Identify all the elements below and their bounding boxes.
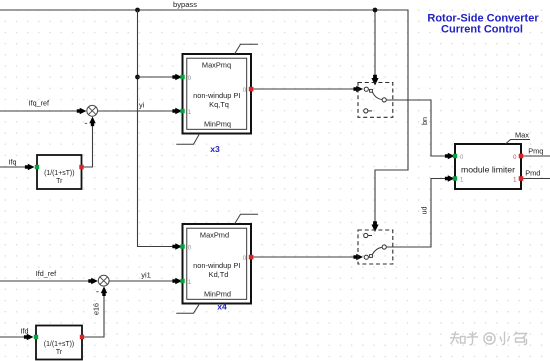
port x3 input0 green (180, 75, 184, 79)
arrow into ML input0 (445, 153, 455, 159)
S2 input contact circle (364, 255, 368, 259)
S2 aux contact circle (364, 233, 368, 237)
wire S2 output to module limiter input1 (ud) (387, 179, 448, 248)
svg-text:yi: yi (139, 101, 145, 110)
char hu (467, 332, 479, 345)
S1 moving contact arm (372, 92, 381, 99)
node junction x=137.5 y=77 (135, 75, 140, 80)
lag block T1 (35, 155, 84, 189)
port x4 output red (249, 255, 254, 260)
port T1 output red (79, 165, 83, 169)
switch S1 dashed box (358, 83, 393, 118)
summer SJ1 (87, 105, 98, 116)
svg-text:Max: Max (515, 131, 529, 140)
svg-text:-: - (84, 118, 87, 129)
S2 notch (370, 255, 373, 258)
x3 callout bottom-left (176, 134, 199, 145)
svg-text:-: - (96, 287, 99, 298)
watermark zhihu @xiaobao (450, 332, 527, 345)
arrow up into SJ2 (101, 286, 107, 296)
wire T1 output up to SJ1 (84, 121, 93, 167)
svg-text:x3: x3 (210, 144, 220, 154)
svg-text:Tr: Tr (56, 178, 63, 185)
port ML input0 green (453, 154, 457, 158)
PI block x4 (180, 224, 253, 304)
svg-text:bn: bn (420, 117, 429, 125)
port ML input1 green (453, 176, 457, 180)
arrow into summer SJ2 (88, 278, 98, 284)
arrow into x4 input0 (172, 243, 182, 249)
wire Ifq input (0, 166, 29, 168)
svg-text:ud: ud (420, 207, 429, 215)
lag block T2 (34, 326, 84, 360)
svg-text:MaxPmq: MaxPmq (202, 61, 231, 70)
port x3 input1 green (180, 109, 184, 113)
S1 notch (370, 89, 373, 92)
S2 output contact circle (382, 245, 386, 249)
svg-text:(1/(1+sT)): (1/(1+sT)) (44, 170, 74, 177)
port ML output0 red (519, 154, 524, 159)
port x4 input1 green (180, 279, 184, 283)
svg-text:MinPmq: MinPmq (204, 120, 231, 129)
svg-text:Pmq: Pmq (528, 147, 543, 156)
wire Ifq_ref input (0, 110, 85, 112)
PI block x3 (180, 54, 253, 134)
svg-text:Ifq_ref: Ifq_ref (29, 99, 49, 108)
port x4 input0 green (180, 244, 184, 248)
wire x3 output to switch S1 (253, 88, 356, 90)
ML callout Max (506, 140, 531, 145)
svg-text:Pmd: Pmd (525, 169, 540, 178)
wire x4 output to switch S2 (253, 256, 356, 258)
arrow into lag block T2 (24, 334, 34, 340)
S1 aux contact circle (364, 109, 368, 113)
svg-text:e16: e16 (92, 303, 101, 315)
x4 callout top-right (235, 214, 259, 224)
arrow into x3 input1 (172, 108, 182, 114)
svg-text:yi1: yi1 (141, 271, 150, 280)
svg-text:Kd,Td: Kd,Td (209, 270, 229, 279)
S1 input contact circle (364, 87, 368, 91)
svg-text:Ifd: Ifd (21, 327, 29, 336)
node bypass junction x=137.5 (135, 8, 140, 13)
wire S1 output to module limiter input0 (bn) (387, 100, 448, 156)
wire yi1 from SJ2 to x4 input1 (109, 280, 175, 282)
node bypass junction x=375 (373, 8, 378, 13)
wire bypass main run (0, 10, 408, 223)
svg-text:module limiter: module limiter (461, 165, 515, 175)
svg-text:Ifq: Ifq (9, 157, 17, 166)
port T2 output red (80, 335, 84, 339)
char xiao (500, 332, 510, 345)
svg-text:bypass: bypass (173, 0, 197, 9)
port ML output1 red (519, 176, 524, 181)
port x3 output red (249, 87, 254, 92)
wire Pmq output (523, 155, 550, 157)
svg-text:Ifd_ref: Ifd_ref (36, 269, 56, 278)
S2 aux contact stub (368, 235, 372, 237)
S1 output contact circle (382, 98, 386, 102)
svg-text:Current Control: Current Control (441, 23, 523, 35)
char at (484, 333, 495, 344)
summer SJ2 (98, 275, 109, 286)
svg-text:Kq,Tq: Kq,Tq (209, 100, 229, 109)
arrow into ML input1 (445, 175, 455, 181)
wire yi from SJ1 to x3 input1 (98, 110, 175, 112)
port T2 input green (34, 335, 38, 339)
svg-text:MaxPmd: MaxPmd (200, 231, 229, 240)
wire Ifd input (0, 336, 28, 338)
arrow into S1 input (353, 86, 363, 92)
svg-text:non-windup PI: non-windup PI (193, 261, 240, 270)
module limiter block U1 (453, 144, 524, 189)
arrow into lag block T1 (25, 164, 35, 170)
arrow into x4 input1 (172, 278, 182, 284)
S2 moving contact arm (372, 247, 381, 254)
arrow into S2 input (353, 254, 363, 260)
char zhi (450, 332, 460, 345)
arrow into S2 control (371, 221, 378, 232)
wire branch to x3 input0 (138, 76, 176, 78)
arrow into summer SJ1 (77, 108, 87, 114)
wire T2 output up to SJ2 (84, 291, 104, 337)
char bao (514, 332, 527, 345)
x4 callout bottom-left (176, 304, 199, 314)
svg-text:MinPmd: MinPmd (204, 290, 231, 299)
x3 callout top-right (235, 44, 259, 54)
wire Ifd_ref input (0, 280, 97, 282)
port T1 input green (35, 165, 39, 169)
svg-text:non-windup PI: non-windup PI (193, 91, 240, 100)
wire Pmd output (523, 178, 550, 180)
arrow into x3 input0 (172, 74, 182, 80)
wire bypass branch to switch S1 control (374, 10, 376, 77)
switch S2 dashed box (358, 230, 393, 264)
svg-text:(1/(1+sT)): (1/(1+sT)) (44, 341, 74, 348)
arrow up into SJ1 (89, 117, 95, 127)
arrow into S1 control (371, 75, 378, 86)
wire vertical x=137.5 down to x4 input0 (138, 10, 176, 247)
svg-text:x4: x4 (217, 302, 227, 312)
svg-text:Tr: Tr (56, 349, 63, 356)
S1 aux contact stub (368, 110, 372, 112)
